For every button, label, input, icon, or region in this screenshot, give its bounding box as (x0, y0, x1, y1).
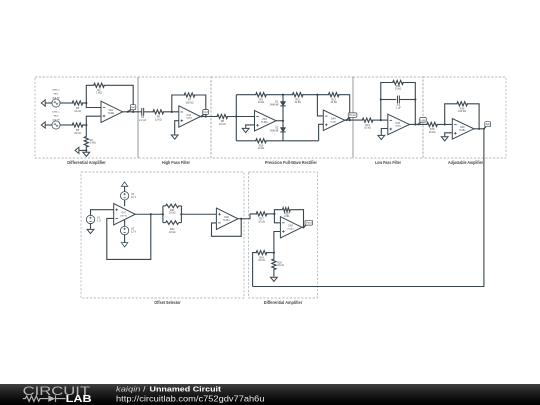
wire output (302, 226, 304, 228)
svg-text:OA1: OA1 (109, 109, 114, 112)
wire non-inverting to ground (246, 125, 255, 128)
wire to op-amp inverting input (86, 103, 101, 108)
wire feedback to output (194, 95, 206, 117)
net flag hpf (201, 114, 204, 117)
wire (85, 146, 87, 150)
wire (60, 102, 73, 104)
source V2 12V (120, 192, 128, 200)
wire down to R20 (273, 253, 275, 260)
wire (227, 116, 255, 118)
node junction (150, 213, 152, 215)
resistor R3 (84, 137, 88, 148)
svg-text:10 kΩ: 10 kΩ (429, 131, 436, 134)
wire output (200, 116, 217, 118)
wire down to R3 (85, 125, 87, 137)
wire output (473, 128, 484, 130)
wire (266, 213, 274, 215)
svg-text:10 kΩ: 10 kΩ (258, 101, 265, 104)
svg-text:1N4148: 1N4148 (270, 103, 279, 106)
svg-text:10 kΩ: 10 kΩ (258, 259, 265, 262)
wire to port (79, 149, 86, 151)
power arrow up (121, 182, 127, 186)
wire feedback to output (290, 210, 303, 228)
svg-text:10 kΩ: 10 kΩ (74, 132, 81, 135)
node junction (273, 252, 275, 254)
wire to op-amp non-inverting input (86, 116, 101, 125)
svg-text:OA6: OA6 (460, 126, 465, 129)
svg-text:1 µF: 1 µF (396, 107, 402, 110)
wire feedback up (274, 210, 282, 214)
wire (82, 102, 86, 104)
wire (266, 252, 274, 254)
node junction (85, 124, 87, 126)
resistor R14 feedback (393, 80, 404, 84)
solid divider line box3-box4 (352, 77, 354, 158)
wire (82, 124, 86, 126)
svg-text:TL081: TL081 (185, 118, 192, 120)
op-amp OA7 LM741 (114, 204, 136, 225)
wire to op4 non-inverting (319, 124, 324, 141)
node junction (478, 128, 480, 130)
ground (380, 134, 382, 137)
svg-text:10 kΩ: 10 kΩ (277, 264, 284, 267)
port IN1 (41, 122, 45, 128)
node junction (273, 213, 275, 215)
resistor R2 feedback (94, 83, 105, 87)
op-amp OA5 TL081 (388, 114, 410, 135)
node junction (240, 218, 242, 220)
svg-text:1 V: 1 V (97, 220, 101, 223)
wire (266, 94, 284, 96)
svg-text:10 kΩ: 10 kΩ (258, 220, 265, 223)
node junction (205, 115, 207, 117)
source EMG2 V4 sine (52, 99, 60, 107)
section box Differential Amplifier (35, 77, 138, 158)
svg-text:10 kΩ: 10 kΩ (330, 101, 337, 104)
net flag Low (418, 122, 421, 125)
svg-text:TL081: TL081 (223, 220, 230, 222)
resistor R19 (256, 251, 267, 255)
node junction (380, 98, 382, 100)
section box Offset Selector (81, 172, 244, 298)
svg-text:TL081: TL081 (394, 125, 401, 127)
wire (144, 111, 154, 113)
wire output (409, 123, 428, 125)
wire (266, 140, 319, 142)
node junction (282, 94, 284, 96)
node junction (235, 115, 237, 117)
wire (124, 187, 126, 192)
svg-text:OA5: OA5 (395, 122, 400, 125)
wire (302, 94, 329, 96)
wire feedback to output (467, 104, 480, 129)
resistor R5 (72, 123, 83, 127)
svg-text:High Pass Filter: High Pass Filter (162, 160, 190, 165)
wire (60, 124, 73, 126)
svg-text:4mV: 4mV (54, 116, 59, 118)
wire feedback loop (107, 214, 151, 259)
svg-text:OA3: OA3 (262, 118, 267, 121)
port COM (75, 147, 79, 153)
node junction (302, 226, 304, 228)
svg-text:10 kΩ: 10 kΩ (155, 118, 162, 121)
wire (400, 99, 416, 101)
wire V- supply (124, 220, 126, 227)
source V1 1V (86, 215, 94, 223)
svg-text:Precision Full-Wave Rectifier: Precision Full-Wave Rectifier (265, 160, 317, 165)
svg-text:OA2: OA2 (186, 114, 191, 117)
wire non-inverting input (274, 232, 281, 253)
svg-text:OA8: OA8 (224, 216, 229, 219)
svg-text:10 kΩ: 10 kΩ (294, 101, 301, 104)
wire feedback up (86, 85, 94, 103)
wire to op4 inverting (317, 95, 323, 116)
resistor R7 feedback (184, 93, 195, 97)
svg-text:500 Hz: 500 Hz (52, 98, 60, 100)
source V3 12V (120, 226, 128, 234)
wire cap branch (381, 99, 396, 101)
svg-text:out: out (131, 106, 135, 109)
svg-text:12 V: 12 V (131, 196, 136, 199)
svg-text:kaiqin: kaiqin (116, 384, 141, 393)
resistor R8 input (217, 114, 228, 118)
resistor R20 (272, 259, 276, 270)
wire (124, 235, 126, 243)
op-amp OA2 TL081 (179, 106, 201, 127)
wire output (345, 119, 363, 121)
resistor R11 (292, 93, 303, 97)
wire top branch cont (283, 94, 293, 96)
ground (85, 150, 87, 152)
resistor R18 feedback (283, 208, 291, 212)
wire op3 output (276, 120, 283, 122)
wire (90, 224, 92, 229)
svg-text:TL081: TL081 (108, 113, 115, 115)
wire (181, 213, 216, 215)
node junction (316, 94, 318, 96)
wire (163, 111, 179, 113)
node junction (380, 119, 382, 121)
wire feedback up (381, 83, 394, 121)
source EMG1 V5 sine (52, 121, 60, 129)
op-amp OA4 TL081 (323, 110, 345, 131)
wire vertical input node (235, 95, 237, 141)
section box Low Pass Filter (353, 77, 423, 158)
net flag out (128, 109, 132, 112)
svg-text:LM741: LM741 (120, 215, 128, 217)
section box High Pass Filter (138, 77, 211, 158)
wire (372, 119, 388, 121)
op-amp OA8 TL081 (216, 208, 238, 229)
node junction (85, 102, 87, 104)
ground (90, 228, 92, 231)
net flag Prec (347, 117, 350, 120)
capacitor C1 (142, 108, 144, 116)
wire non-inverting to ground (445, 133, 453, 136)
node junction (349, 119, 351, 121)
wire (45, 124, 52, 126)
resistor R13 input (362, 118, 373, 122)
svg-text:1 MΩ: 1 MΩ (90, 142, 96, 145)
section box Differential Amplifier 2 (249, 172, 318, 298)
node junction (171, 111, 173, 113)
svg-text:TL081: TL081 (330, 121, 337, 123)
diode D2 1N4148 (282, 121, 284, 128)
footer bar (0, 383, 540, 405)
svg-text:Differential Amplifier: Differential Amplifier (264, 300, 303, 305)
resistor R4 (72, 101, 83, 105)
svg-text:10 kΩ: 10 kΩ (219, 123, 226, 126)
svg-text:Differential Amplifier: Differential Amplifier (67, 160, 106, 165)
wire feedback to output (104, 85, 134, 112)
node junction (162, 213, 164, 215)
wire (403, 83, 416, 125)
svg-text:10 kΩ: 10 kΩ (74, 110, 81, 113)
svg-text:Offset Selector: Offset Selector (154, 300, 181, 305)
svg-text:TL081: TL081 (287, 228, 294, 230)
svg-text:100 kΩ: 100 kΩ (458, 110, 466, 113)
svg-text:Low Pass Filter: Low Pass Filter (375, 160, 401, 165)
svg-text:10 kΩ: 10 kΩ (169, 212, 176, 215)
op-amp OA1 TL081 (101, 101, 123, 122)
node junction at output (132, 111, 134, 113)
wire (45, 102, 52, 104)
svg-text:Prec: Prec (349, 114, 357, 117)
wire top branch (236, 94, 256, 96)
svg-text:Adjustable Amplifier: Adjustable Amplifier (448, 160, 483, 165)
wire feedback up (172, 95, 185, 112)
svg-text:Adj: Adj (486, 123, 491, 126)
wire output (135, 213, 163, 215)
wire non-inverting to ground (175, 121, 179, 135)
ground (273, 275, 275, 278)
parallel resistors R21 R22 (162, 206, 164, 223)
resistor R9 (256, 93, 267, 97)
svg-text:LAB: LAB (66, 394, 92, 405)
ground (444, 135, 446, 138)
wire feedback to output (338, 95, 350, 120)
svg-text:TL081: TL081 (261, 122, 268, 124)
svg-text:http://circuitlab.com/c752gdv7: http://circuitlab.com/c752gdv77ah6u (116, 395, 265, 404)
svg-text:4mV: 4mV (54, 94, 59, 96)
wire (91, 210, 114, 216)
ground (245, 127, 247, 130)
op-amp OA9 TL081 (280, 217, 302, 238)
ground (174, 133, 176, 136)
wire feedback loop (212, 219, 242, 237)
svg-text:500 Hz: 500 Hz (52, 120, 60, 122)
svg-text:1 MΩ: 1 MΩ (283, 215, 289, 218)
svg-text:100 kΩ: 100 kΩ (186, 101, 194, 104)
node junction (85, 149, 87, 151)
resistor R10 bottom (256, 139, 267, 143)
power arrow down (121, 243, 127, 247)
resistor R16 feedback (457, 102, 468, 106)
svg-text:Vout: Vout (306, 222, 312, 225)
svg-text:EMG 2: EMG 2 (52, 90, 60, 92)
resistor R15 input (427, 122, 438, 126)
wire to inverting input (274, 214, 280, 223)
wire (273, 269, 275, 277)
resistor R6 (153, 110, 164, 114)
svg-text:OA4: OA4 (331, 118, 336, 121)
section box Precision Full-Wave Rectifier (211, 77, 353, 158)
op-amp OA6 TL081 (452, 119, 474, 140)
op-amp OA3 TL081 (255, 111, 277, 132)
svg-text:Low: Low (421, 119, 426, 122)
diode D1 1N4148 (282, 95, 284, 102)
solid divider line box1-box2 (137, 77, 139, 158)
svg-text:OA9: OA9 (288, 225, 293, 228)
svg-text:12 V: 12 V (131, 231, 136, 234)
wire output (123, 111, 142, 113)
svg-text:10 kΩ: 10 kΩ (169, 231, 176, 234)
wire V+ supply (124, 200, 126, 206)
wire from long feedback (253, 253, 257, 287)
resistor R12 feedback (328, 93, 339, 97)
svg-text:Unnamed Circuit: Unnamed Circuit (150, 384, 222, 393)
wire non-inverting to ground (381, 129, 388, 135)
capacitor C2 feedback (397, 96, 399, 104)
svg-text:TL081: TL081 (459, 130, 466, 132)
resistor R17 input (256, 212, 267, 216)
wire long output down and across (253, 129, 484, 287)
svg-text:EMG 1: EMG 1 (52, 112, 60, 114)
svg-text:1N4148: 1N4148 (270, 129, 279, 132)
wire output to next stage (238, 214, 257, 219)
wire (437, 123, 453, 125)
svg-text:hpf: hpf (204, 111, 209, 114)
svg-text:10 kΩ: 10 kΩ (395, 88, 402, 91)
section box Adjustable Amplifier (423, 77, 506, 158)
node junction (414, 98, 416, 100)
node junction (444, 123, 446, 125)
svg-text:OA7: OA7 (121, 212, 126, 215)
svg-text:10 kΩ: 10 kΩ (258, 147, 265, 150)
svg-text:10 kΩ: 10 kΩ (364, 127, 371, 130)
svg-text:2.2 µF: 2.2 µF (139, 119, 147, 122)
port IN2 (41, 100, 45, 106)
svg-text:1 MΩ: 1 MΩ (96, 92, 102, 95)
wire bottom branch (236, 140, 256, 142)
node junction (414, 123, 416, 125)
net flag Adj (484, 126, 487, 129)
wire feedback up (445, 104, 458, 125)
net flag Vout (304, 225, 307, 228)
node junction (282, 120, 284, 122)
